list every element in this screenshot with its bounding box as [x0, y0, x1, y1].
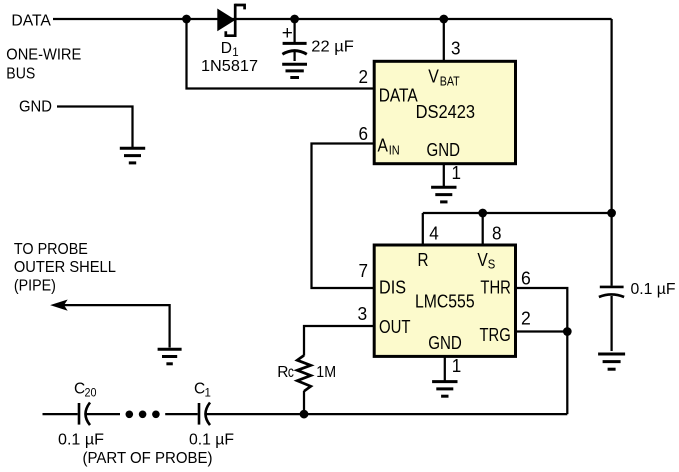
capacitor C 22uF (polarized) [282, 19, 306, 61]
svg-text:DATA: DATA [11, 12, 51, 29]
op IC U1 DS2423 box [374, 61, 515, 163]
svg-text:LMC555: LMC555 [415, 291, 475, 311]
wire: probe shell arrow line [63, 305, 170, 347]
junction node D (pin 8 tap) [478, 209, 487, 218]
svg-text:GND: GND [428, 333, 462, 353]
wire: DS2423 pin 1 to ground [443, 164, 445, 187]
svg-text:S: S [488, 257, 496, 272]
svg-text:TRG: TRG [480, 325, 511, 345]
wire: node A down to DS2423 DATA pin 2 [187, 19, 375, 89]
wire: between ellipsis and C1 [165, 413, 198, 415]
wire: probe net to TRG corner [207, 413, 568, 415]
svg-text:1: 1 [452, 356, 462, 376]
svg-text:R: R [418, 250, 429, 270]
wire: DS2423 AIN to LMC555 DIS [312, 144, 375, 289]
svg-text:BAT: BAT [440, 74, 460, 89]
svg-text:6: 6 [521, 268, 531, 288]
wire: GND stub [57, 107, 133, 148]
junction node C (DS2423 VBAT tap) [439, 15, 448, 24]
capacitor C20 [79, 403, 90, 426]
svg-text:3: 3 [451, 38, 461, 58]
wire: VS supply rail to LMC555 pins 4 and 8 [423, 212, 612, 214]
wire: probe net left segment [43, 413, 78, 415]
svg-text:(PART OF PROBE): (PART OF PROBE) [83, 450, 213, 467]
capacitor C1 [199, 403, 210, 426]
ground symbol (GND net) [120, 148, 145, 163]
svg-text:c: c [288, 364, 294, 381]
wire: one-wire data bus top rail [53, 18, 612, 20]
svg-text:7: 7 [359, 261, 369, 281]
svg-text:DS2423: DS2423 [416, 102, 476, 122]
svg-text:DIS: DIS [379, 277, 406, 297]
wire: between C20 and ellipsis [87, 413, 121, 415]
svg-text:DATA: DATA [379, 85, 418, 105]
svg-text:V: V [477, 250, 487, 270]
diode D1 1N5817 (Schottky) [218, 4, 245, 37]
junction node B (22uF tap / diode cathode) [290, 15, 299, 24]
svg-text:V: V [428, 67, 439, 87]
svg-text:1: 1 [205, 388, 211, 400]
wire: THR to TRG feedback net [515, 288, 568, 414]
svg-text:TO PROBE: TO PROBE [14, 241, 88, 258]
svg-text:ONE-WIRE: ONE-WIRE [6, 47, 81, 64]
svg-text:THR: THR [480, 277, 511, 297]
ground symbol (22uF) [282, 64, 307, 77]
svg-text:D: D [221, 40, 232, 57]
svg-text:0.1 µF: 0.1 µF [631, 281, 676, 298]
svg-text:R: R [277, 364, 288, 381]
wire: node C to DS2423 pin 3 [443, 19, 445, 60]
svg-text:2: 2 [359, 67, 369, 87]
junction node A (diode anode tap) [182, 15, 191, 24]
svg-text:GND: GND [19, 99, 52, 116]
wire: TRG stub [515, 330, 568, 332]
svg-text:20: 20 [85, 388, 97, 400]
svg-text:1: 1 [452, 163, 462, 183]
ground symbol (DS2423) [431, 187, 456, 202]
wire: right vertical rail (V+ to 0.1uF cap) [610, 19, 612, 286]
wire: OUT to RC [304, 326, 374, 356]
svg-text:1N5817: 1N5817 [201, 58, 258, 75]
junction node G (RC / probe net) [300, 410, 309, 419]
svg-text:1M: 1M [316, 364, 336, 381]
svg-text:OUT: OUT [379, 317, 411, 337]
resistor RC 1M [297, 355, 311, 391]
junction node E (right rail tap) [607, 209, 616, 218]
svg-text:A: A [378, 136, 388, 156]
svg-text:BUS: BUS [6, 66, 35, 83]
svg-text:8: 8 [492, 224, 502, 244]
wire: LMC555 pin 1 to ground [444, 356, 446, 380]
svg-text:GND: GND [427, 140, 461, 160]
svg-text:22 µF: 22 µF [311, 39, 354, 56]
op IC U2 LMC555 box [374, 245, 515, 356]
svg-text:6: 6 [359, 124, 369, 144]
ellipsis dots (C2..C19) [126, 411, 134, 419]
capacitor 0.1uF (right rail) [599, 287, 624, 297]
ground symbol (0.1uF right) [598, 354, 625, 369]
wire: RC to bottom net [303, 391, 305, 414]
svg-text:0.1 µF: 0.1 µF [189, 431, 234, 448]
ground symbol (LMC555) [432, 382, 457, 397]
svg-text:IN: IN [389, 143, 400, 158]
wire: right rail below 0.1uF cap to ground [610, 296, 612, 351]
junction node F (THR/TRG) [563, 327, 572, 336]
arrowhead (to probe outer shell) [52, 300, 67, 309]
svg-text:2: 2 [521, 309, 531, 329]
svg-text:OUTER SHELL: OUTER SHELL [14, 259, 116, 276]
svg-text:(PIPE): (PIPE) [14, 277, 56, 294]
ground symbol (probe shell) [158, 349, 182, 364]
svg-text:+: + [282, 23, 293, 44]
svg-text:0.1 µF: 0.1 µF [58, 431, 104, 448]
svg-text:3: 3 [358, 304, 368, 324]
svg-text:4: 4 [429, 224, 439, 244]
